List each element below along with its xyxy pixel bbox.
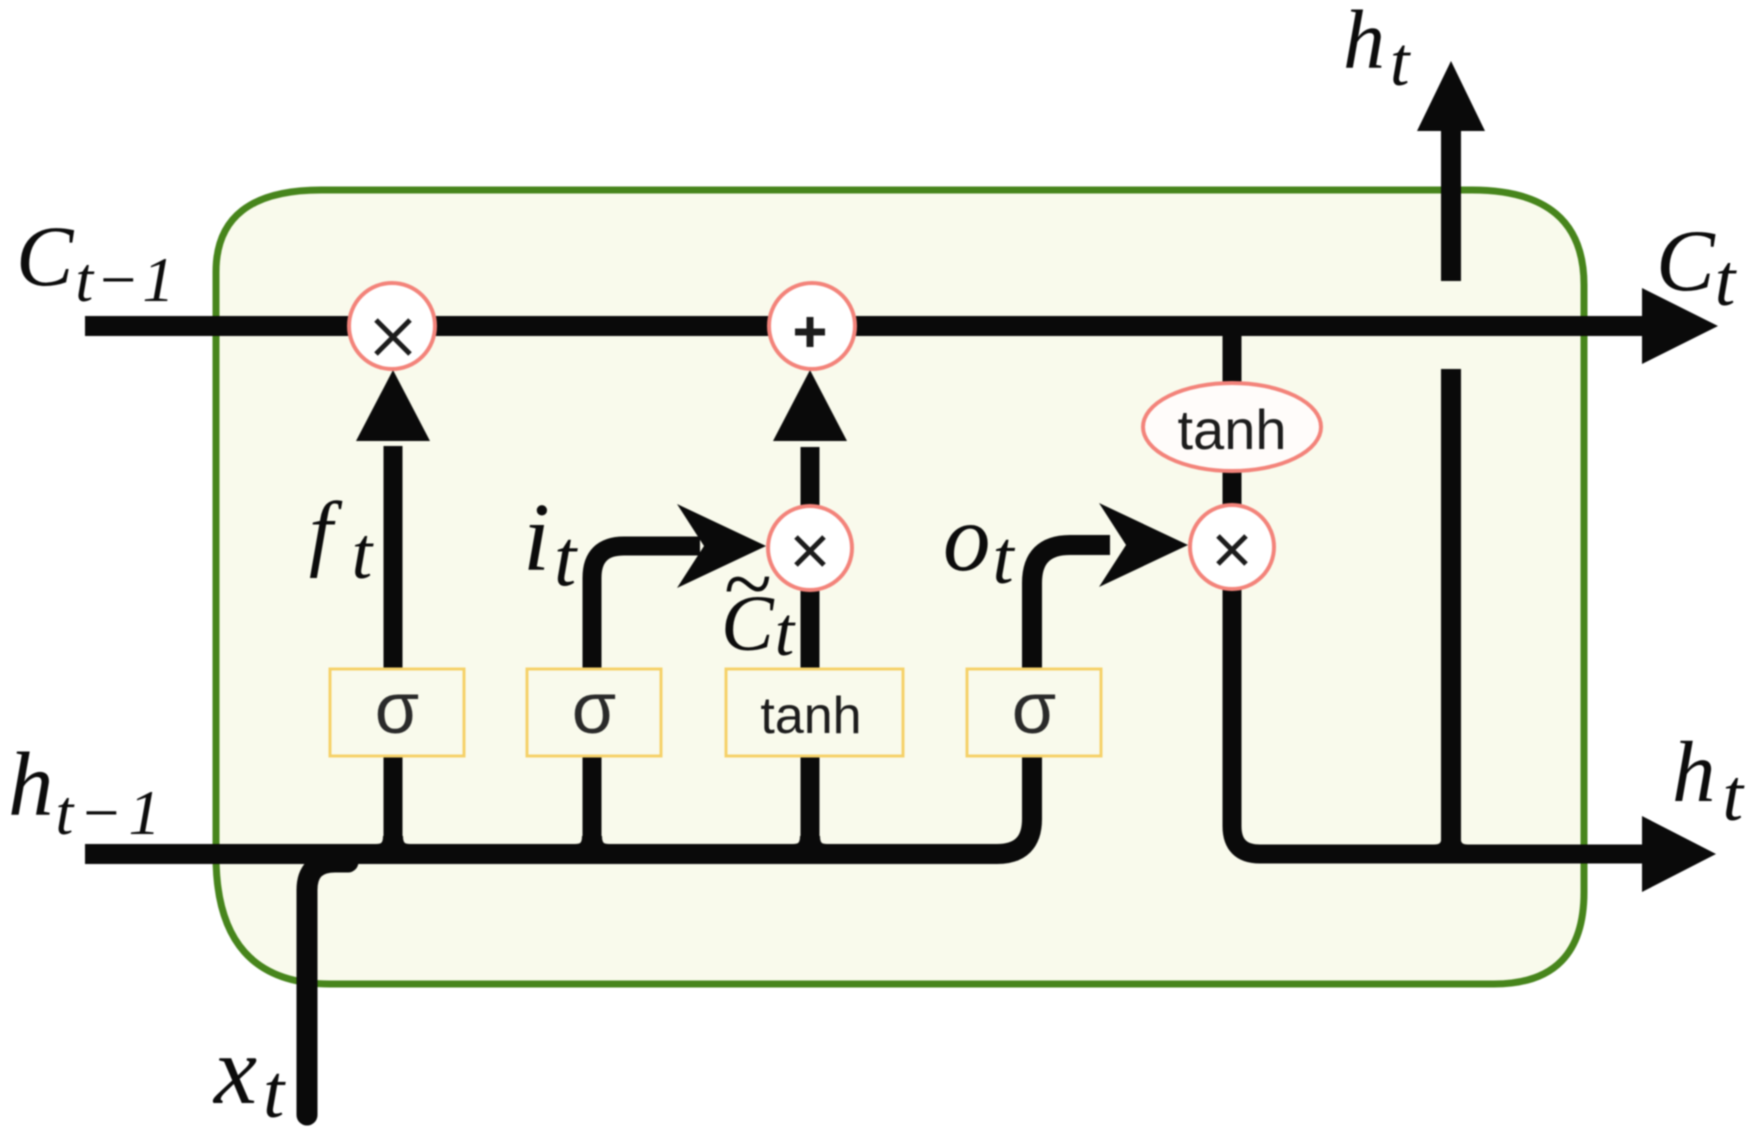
svg-text:σ: σ xyxy=(375,669,419,749)
x glyph xyxy=(376,320,410,354)
wire: f_t vertical xyxy=(384,446,403,858)
operator circle + xyxy=(769,283,855,369)
wire: C~_t lower vertical xyxy=(801,585,820,858)
wire: x_t input merging into h line xyxy=(307,862,348,1115)
operator circle x (forget gate) xyxy=(349,283,435,369)
svg-text:tanh: tanh xyxy=(760,687,861,745)
arrowhead i_t (barbed) xyxy=(677,504,766,588)
wire: C~_t upper vertical into + xyxy=(801,447,820,512)
svg-text:tanh: tanh xyxy=(1178,398,1287,461)
operator circle x (input gate) xyxy=(768,506,852,590)
junction fillet at i_t branch xyxy=(575,836,609,854)
svg-text:σ: σ xyxy=(572,669,616,749)
gate box tanh xyxy=(726,669,903,756)
gate box sigma 2 xyxy=(527,669,661,756)
arrowhead into + circle xyxy=(773,370,847,441)
junction fillet at C~_t branch xyxy=(793,836,827,854)
junction fillet at h_t riser xyxy=(1434,836,1468,854)
wire: cell state line C_{t-1} to C_t xyxy=(85,316,1646,336)
+ glyph xyxy=(795,317,825,347)
wire: i_t branch with elbow xyxy=(592,546,700,858)
arrowhead h_t top xyxy=(1417,61,1485,131)
LSTM cell body xyxy=(216,190,1584,984)
arrowhead o_t (barbed) xyxy=(1099,503,1188,587)
svg-text:Ct: Ct xyxy=(721,581,796,671)
wire: tanh branch down from C line xyxy=(1223,330,1242,392)
arrowhead f_t xyxy=(356,370,430,441)
operator circle x (output gate) xyxy=(1190,505,1274,589)
wire: h_t riser upper segment xyxy=(1441,128,1461,281)
junction fillet at f_t branch xyxy=(376,836,410,854)
gate box sigma 1 xyxy=(330,669,464,756)
gate box sigma 3 xyxy=(967,669,1101,756)
x glyph xyxy=(1218,536,1246,564)
wire: h_t riser lower segment xyxy=(1441,369,1461,858)
tanh ellipse xyxy=(1143,383,1321,471)
wire: between tanh ellipse and output x circle xyxy=(1223,468,1242,510)
wire: output gate product down and right to h_t arrow xyxy=(1232,585,1646,854)
wire: h_{t-1} input line, turning up into o_t branch xyxy=(85,545,1110,854)
arrowhead h_t right xyxy=(1642,816,1716,892)
svg-text:σ: σ xyxy=(1012,669,1056,749)
arrowhead C_t xyxy=(1642,288,1718,364)
x glyph xyxy=(796,537,824,565)
